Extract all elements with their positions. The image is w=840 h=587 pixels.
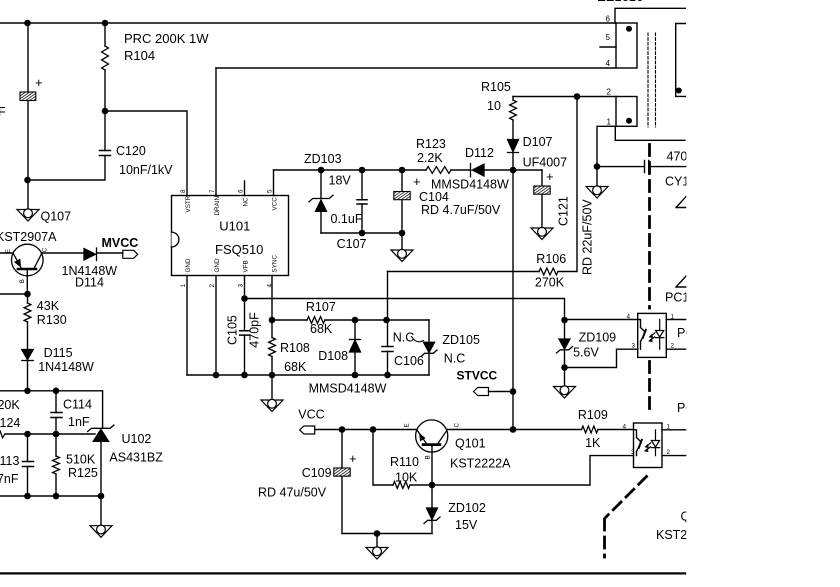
svg-text:U101: U101: [219, 219, 250, 234]
svg-text:EE1616: EE1616: [597, 0, 643, 4]
svg-text:R124: R124: [0, 416, 20, 430]
svg-text:R107: R107: [306, 300, 336, 314]
svg-text:D108: D108: [318, 349, 348, 363]
svg-text:R125: R125: [68, 466, 98, 480]
svg-text:4: 4: [267, 284, 274, 288]
svg-text:D114: D114: [75, 276, 104, 290]
svg-text:R105: R105: [481, 80, 511, 94]
svg-text:470p: 470p: [667, 150, 695, 164]
svg-text:PRC 200K 1W: PRC 200K 1W: [124, 31, 209, 46]
svg-text:2: 2: [671, 343, 675, 350]
svg-text:SYNC: SYNC: [272, 255, 279, 273]
svg-text:7: 7: [209, 189, 216, 193]
svg-text:VFB: VFB: [243, 260, 250, 272]
svg-text:KST2222A: KST2222A: [450, 457, 511, 471]
svg-text:1N4148W: 1N4148W: [38, 360, 94, 374]
svg-text:10nF/1kV: 10nF/1kV: [119, 163, 173, 177]
svg-text:C104: C104: [419, 190, 449, 204]
svg-text:1nF: 1nF: [68, 415, 90, 429]
svg-text:GND: GND: [214, 258, 221, 272]
svg-text:3: 3: [631, 343, 635, 350]
svg-text:5.6V: 5.6V: [573, 346, 599, 360]
svg-text:820K: 820K: [0, 398, 20, 412]
svg-text:NC: NC: [243, 197, 250, 207]
svg-text:R123: R123: [416, 137, 446, 151]
svg-text:STVCC: STVCC: [457, 369, 498, 383]
svg-text:C: C: [42, 247, 49, 252]
svg-text:47nF: 47nF: [0, 472, 19, 486]
svg-text:N.C: N.C: [393, 331, 415, 345]
svg-text:3: 3: [631, 449, 635, 456]
svg-text:6: 6: [238, 189, 245, 193]
svg-text:B: B: [19, 279, 26, 283]
svg-text:Q107: Q107: [41, 210, 72, 224]
svg-text:4: 4: [626, 314, 630, 321]
svg-text:GND: GND: [185, 258, 192, 272]
svg-text:F: F: [0, 105, 6, 119]
svg-text:C120: C120: [116, 144, 146, 158]
svg-text:DRAIN: DRAIN: [214, 195, 221, 215]
svg-text:B: B: [425, 455, 432, 459]
svg-text:R130: R130: [37, 313, 67, 327]
svg-text:KST2907A: KST2907A: [0, 230, 57, 244]
svg-text:E: E: [404, 423, 411, 427]
svg-text:R108: R108: [280, 341, 310, 355]
svg-text:+: +: [35, 75, 43, 90]
svg-text:ZD103: ZD103: [304, 152, 342, 166]
svg-text:N.C: N.C: [444, 352, 466, 366]
svg-text:R109: R109: [578, 408, 608, 422]
svg-text:Q101: Q101: [455, 437, 486, 451]
svg-text:R110: R110: [390, 455, 419, 469]
svg-text:C121: C121: [557, 196, 571, 226]
svg-text:+: +: [546, 169, 554, 184]
svg-text:D107: D107: [523, 135, 553, 149]
svg-text:R106: R106: [536, 252, 566, 266]
svg-text:2: 2: [607, 88, 612, 97]
svg-text:43K: 43K: [37, 299, 60, 313]
svg-text:VSTR: VSTR: [185, 195, 192, 212]
svg-text:ZD102: ZD102: [448, 501, 486, 515]
svg-text:470pF: 470pF: [248, 312, 262, 348]
svg-text:C106: C106: [394, 354, 424, 368]
svg-text:1: 1: [180, 284, 187, 288]
svg-text:2: 2: [209, 284, 216, 288]
svg-text:UF4007: UF4007: [523, 156, 568, 170]
svg-text:C109: C109: [302, 466, 332, 480]
svg-text:4: 4: [606, 59, 611, 68]
svg-text:D112: D112: [465, 146, 494, 160]
svg-text:1: 1: [671, 314, 675, 321]
svg-text:C113: C113: [0, 454, 20, 468]
svg-text:MMSD4148W: MMSD4148W: [309, 382, 387, 396]
svg-text:10K: 10K: [395, 471, 418, 485]
svg-text:D115: D115: [44, 346, 73, 360]
svg-text:FSQ510: FSQ510: [215, 242, 263, 257]
svg-text:5: 5: [606, 33, 611, 42]
svg-text:+: +: [413, 174, 421, 189]
svg-text:15V: 15V: [455, 518, 478, 532]
svg-text:18V: 18V: [329, 174, 352, 188]
svg-text:C107: C107: [337, 237, 367, 251]
svg-text:PC1: PC1: [665, 291, 689, 305]
svg-text:AS431BZ: AS431BZ: [109, 451, 163, 465]
svg-text:C: C: [454, 423, 461, 428]
svg-text:5: 5: [267, 189, 274, 193]
svg-text:2.2K: 2.2K: [417, 151, 443, 165]
svg-text:1: 1: [607, 118, 612, 127]
svg-text:ZD105: ZD105: [442, 333, 480, 347]
svg-text:3: 3: [238, 284, 245, 288]
svg-text:PC: PC: [677, 401, 694, 415]
svg-text:PC: PC: [677, 326, 694, 340]
svg-text:Q1: Q1: [681, 510, 698, 524]
svg-text:RD 4.7uF/50V: RD 4.7uF/50V: [421, 203, 501, 217]
svg-text:10: 10: [487, 99, 501, 113]
svg-text:KST222: KST222: [656, 528, 701, 542]
svg-text:CY1: CY1: [665, 175, 689, 189]
svg-text:C114: C114: [63, 398, 92, 412]
svg-text:8: 8: [180, 189, 187, 193]
svg-text:MVCC: MVCC: [102, 236, 139, 250]
svg-text:0.1uF: 0.1uF: [331, 212, 363, 226]
svg-text:VCC: VCC: [272, 197, 279, 211]
svg-text:RD 47u/50V: RD 47u/50V: [258, 486, 327, 500]
svg-text:270K: 270K: [535, 276, 565, 290]
svg-text:6: 6: [606, 15, 611, 24]
svg-text:4: 4: [622, 424, 626, 431]
svg-text:68K: 68K: [310, 322, 333, 336]
svg-text:2: 2: [667, 449, 671, 456]
svg-text:E: E: [5, 249, 12, 253]
svg-text:VCC: VCC: [298, 408, 324, 422]
svg-text:C105: C105: [226, 315, 240, 345]
svg-text:R104: R104: [124, 48, 155, 63]
svg-text:RD 22uF/50V: RD 22uF/50V: [581, 199, 595, 275]
svg-text:1K: 1K: [585, 436, 601, 450]
svg-text:1: 1: [667, 424, 671, 431]
svg-text:ZD109: ZD109: [579, 331, 617, 345]
svg-text:U102: U102: [122, 432, 152, 446]
svg-text:510K: 510K: [66, 453, 96, 467]
svg-text:+: +: [349, 451, 357, 466]
svg-text:MMSD4148W: MMSD4148W: [431, 178, 509, 192]
svg-text:68K: 68K: [284, 360, 307, 374]
